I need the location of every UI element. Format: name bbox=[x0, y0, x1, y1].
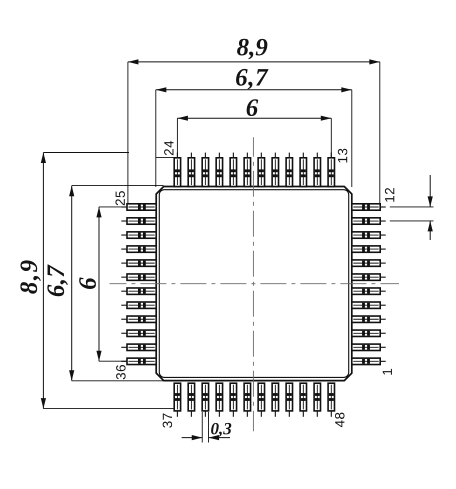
pin label 24 bbox=[164, 141, 173, 155]
vertical centerline bbox=[252, 137, 254, 431]
pin 36 (left column) bbox=[121, 358, 156, 364]
package body outer outline bbox=[156, 187, 352, 381]
pin 37 (bottom row) bbox=[174, 383, 180, 417]
pin 24 (top row) bbox=[174, 153, 180, 187]
pin 40 (bottom row) bbox=[216, 383, 222, 417]
pin 29 (left column) bbox=[121, 260, 156, 266]
pin 11 (right column) bbox=[352, 218, 386, 224]
pin 25 (left column) bbox=[121, 204, 156, 210]
pin 48 (bottom row) bbox=[328, 383, 334, 417]
pin 6 (right column) bbox=[352, 288, 386, 294]
extension line right for 8,9 top bbox=[379, 62, 381, 204]
pin 46 (bottom row) bbox=[300, 383, 306, 417]
pin 41 (bottom row) bbox=[230, 383, 236, 417]
pin 44 (bottom row) bbox=[272, 383, 278, 417]
pin 2 (right column) bbox=[352, 344, 386, 350]
extension line left for 8,9 top bbox=[127, 62, 129, 204]
pin 14 (top row) bbox=[314, 153, 320, 187]
pin 45 (bottom row) bbox=[286, 383, 292, 417]
pin 20 (top row) bbox=[230, 153, 236, 187]
pin label 13 bbox=[338, 149, 348, 163]
pin 35 (left column) bbox=[121, 344, 156, 350]
label leader line for pin 24 bbox=[156, 156, 175, 158]
dimension 6,7 top bbox=[156, 69, 352, 93]
pin 7 (right column) bbox=[352, 274, 386, 280]
pin label 25 bbox=[115, 191, 125, 205]
pin 15 (top row) bbox=[300, 153, 306, 187]
pin 4 (right column) bbox=[352, 316, 386, 322]
extension line right for 6 top (to pin 13) bbox=[330, 118, 332, 158]
pin 16 (top row) bbox=[286, 153, 292, 187]
extension line left for 6,7 top bbox=[155, 90, 157, 187]
pin 18 (top row) bbox=[258, 153, 264, 187]
pin 34 (left column) bbox=[121, 330, 156, 336]
dimension 6 top bbox=[177, 99, 331, 121]
extension line top for 6,7 left bbox=[72, 184, 164, 186]
extension line bottom for 8,9 left bbox=[43, 408, 173, 410]
horizontal centerline bbox=[110, 283, 400, 285]
pin label 37 bbox=[163, 414, 173, 428]
pin label 1 bbox=[383, 369, 392, 375]
pin 30 (left column) bbox=[121, 274, 156, 280]
pin label 48 bbox=[335, 413, 345, 428]
dimension 0,3 bottom (pin width) bbox=[182, 412, 232, 443]
pin 17 (top row) bbox=[272, 153, 278, 187]
pin label 36 bbox=[116, 365, 126, 379]
package body inner outline bbox=[159, 190, 348, 378]
pin 13 (top row) bbox=[328, 153, 334, 187]
dimension 8,9 top: line + arrows + label bbox=[128, 39, 380, 65]
pin 33 (left column) bbox=[121, 316, 156, 322]
extension line bottom for 6 left (to pin 36) bbox=[99, 360, 127, 362]
extension line pin 11 center bbox=[390, 220, 434, 222]
extension line left for 6 top (to pin 24) bbox=[176, 118, 178, 158]
pin 1 (right column) bbox=[352, 358, 386, 364]
pin 43 (bottom row) bbox=[258, 383, 264, 417]
extension line top for 6 left (to pin 25) bbox=[99, 206, 127, 208]
pin pitch dimension right side bbox=[428, 175, 433, 240]
pin 22 (top row) bbox=[202, 153, 208, 187]
pin 27 (left column) bbox=[121, 232, 156, 238]
pin label 12 bbox=[385, 188, 394, 202]
pin 31 (left column) bbox=[121, 288, 156, 294]
extension line bottom for 6,7 left bbox=[72, 380, 163, 382]
dimension 6 left bbox=[79, 207, 101, 361]
extension line pin 12 center bbox=[390, 206, 434, 208]
pin 10 (right column) bbox=[352, 232, 386, 238]
extension line top for 8,9 left bbox=[43, 152, 129, 154]
pin 39 (bottom row) bbox=[202, 383, 208, 417]
dimension 6,7 left bbox=[47, 186, 74, 381]
pin 28 (left column) bbox=[121, 246, 156, 252]
pin 23 (top row) bbox=[188, 153, 194, 187]
pin 3 (right column) bbox=[352, 330, 386, 336]
pin 21 (top row) bbox=[216, 153, 222, 187]
pin 8 (right column) bbox=[352, 260, 386, 266]
pin 5 (right column) bbox=[352, 302, 386, 308]
pin 12 (right column) bbox=[352, 204, 386, 210]
pin 47 (bottom row) bbox=[314, 383, 320, 417]
pin 9 (right column) bbox=[352, 246, 386, 252]
pin 38 (bottom row) bbox=[188, 383, 194, 417]
pin 26 (left column) bbox=[121, 218, 156, 224]
pin 42 (bottom row) bbox=[244, 383, 250, 417]
extension line right for 6,7 top bbox=[351, 90, 353, 187]
pin 32 (left column) bbox=[121, 302, 156, 308]
pin 19 (top row) bbox=[244, 153, 250, 187]
dimension 8,9 left bbox=[20, 153, 46, 409]
